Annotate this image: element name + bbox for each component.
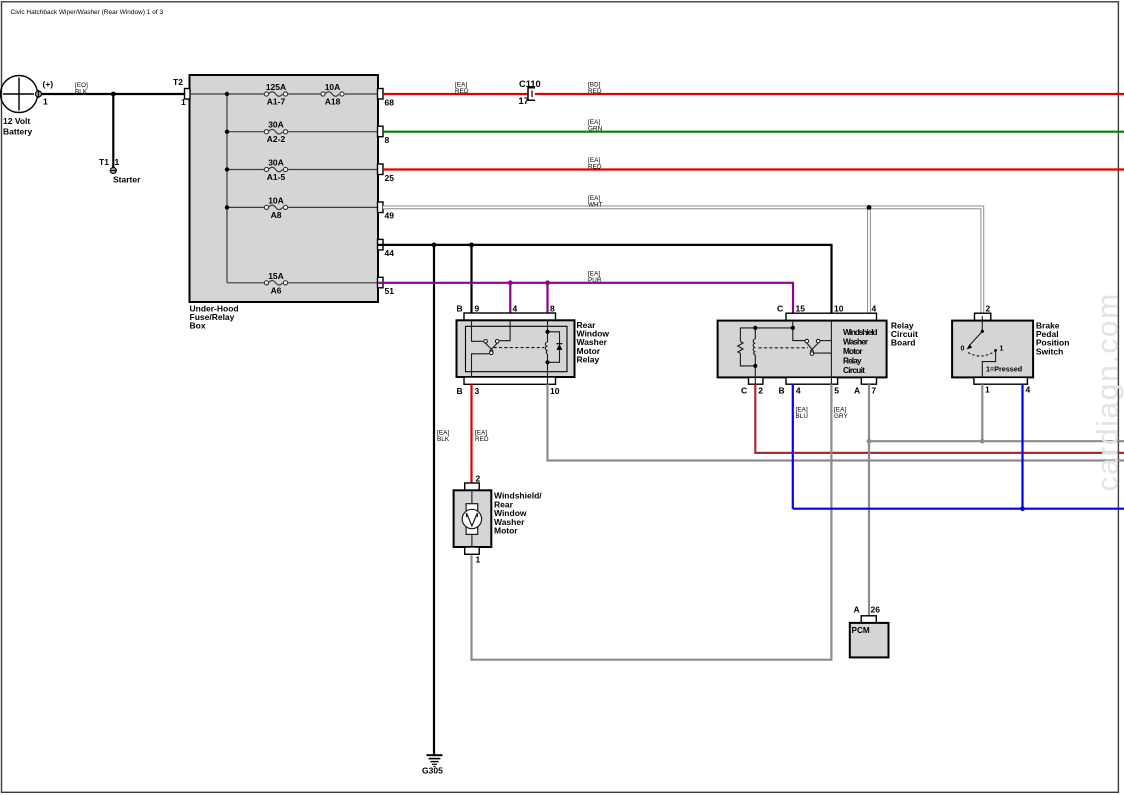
svg-text:C: C [777,304,783,314]
svg-text:WHT: WHT [588,201,603,208]
svg-text:BLU: BLU [796,413,809,420]
svg-text:2: 2 [758,386,763,396]
svg-text:51: 51 [385,286,395,296]
svg-text:15: 15 [796,304,806,314]
svg-text:125A: 125A [266,82,286,92]
svg-text:RED: RED [455,88,469,95]
svg-text:A1-5: A1-5 [267,172,286,182]
svg-text:RED: RED [475,436,489,443]
svg-text:cardiagn.com: cardiagn.com [1092,292,1124,491]
svg-text:10A: 10A [268,195,284,205]
svg-text:A18: A18 [325,97,341,107]
svg-text:A1-7: A1-7 [267,97,286,107]
svg-text:PCM: PCM [852,626,870,635]
svg-text:44: 44 [385,248,395,258]
svg-text:Motor: Motor [843,347,863,356]
svg-text:1: 1 [1000,346,1004,353]
svg-text:15A: 15A [268,271,284,281]
svg-text:4: 4 [1026,385,1031,395]
svg-text:A: A [854,605,860,615]
svg-text:Board: Board [891,338,916,348]
svg-text:Relay: Relay [843,357,862,366]
svg-text:10: 10 [550,386,560,396]
svg-text:Windshield: Windshield [843,328,878,337]
svg-text:2: 2 [986,304,991,314]
svg-text:8: 8 [550,304,555,314]
svg-text:1: 1 [476,555,481,565]
svg-text:9: 9 [475,304,480,314]
svg-text:GRN: GRN [588,126,603,133]
svg-text:BLK: BLK [75,89,88,96]
svg-text:BLK: BLK [437,436,450,443]
svg-text:GRY: GRY [834,413,849,420]
svg-text:T1: T1 [99,157,109,167]
svg-text:2: 2 [476,474,481,484]
svg-text:Civic Hatchback Wiper/Washer (: Civic Hatchback Wiper/Washer (Rear Windo… [11,9,164,16]
svg-text:49: 49 [385,211,395,221]
svg-text:B: B [779,386,785,396]
svg-text:10A: 10A [325,82,341,92]
svg-text:12 Volt: 12 Volt [3,116,30,126]
svg-text:Switch: Switch [1036,346,1063,356]
svg-text:5: 5 [834,386,839,396]
svg-text:4: 4 [513,304,518,314]
svg-text:1: 1 [43,97,48,107]
svg-text:Circuit: Circuit [843,366,865,375]
svg-text:PUR: PUR [588,277,602,284]
svg-text:8: 8 [385,135,390,145]
svg-text:Box: Box [190,321,206,331]
svg-text:4: 4 [872,304,877,314]
svg-text:B: B [457,304,463,314]
svg-text:26: 26 [871,605,881,615]
svg-text:RED: RED [588,164,602,171]
svg-text:A: A [854,386,860,396]
svg-text:(+): (+) [43,79,54,89]
svg-text:Battery: Battery [3,126,33,136]
svg-text:RED: RED [588,88,602,95]
svg-text:7: 7 [871,386,876,396]
svg-text:A2-2: A2-2 [267,134,286,144]
svg-text:3: 3 [475,386,480,396]
svg-text:C: C [741,386,747,396]
svg-text:Starter: Starter [113,175,141,185]
svg-text:1: 1 [985,385,990,395]
svg-text:1=Pressed: 1=Pressed [986,364,1022,373]
svg-text:T2: T2 [173,77,183,87]
svg-text:30A: 30A [268,158,284,168]
svg-text:0: 0 [961,346,965,353]
svg-text:Relay: Relay [577,354,600,364]
svg-text:C110: C110 [519,79,541,89]
svg-text:25: 25 [385,173,395,183]
svg-text:10: 10 [834,304,844,314]
svg-text:G305: G305 [422,766,443,776]
svg-text:A6: A6 [271,285,282,295]
svg-text:Motor: Motor [494,526,518,536]
svg-text:1: 1 [115,157,120,167]
svg-text:A8: A8 [271,210,282,220]
svg-text:17: 17 [519,96,529,106]
svg-text:68: 68 [385,98,395,108]
svg-text:4: 4 [796,386,801,396]
svg-text:30A: 30A [268,120,284,130]
svg-text:B: B [457,386,463,396]
svg-text:Washer: Washer [843,337,869,346]
